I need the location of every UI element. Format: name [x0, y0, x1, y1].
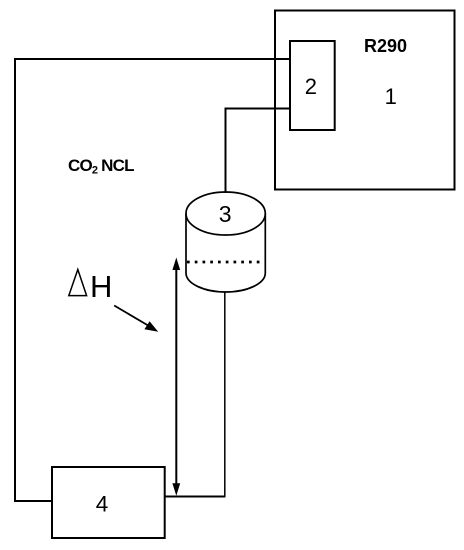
wire lower: component 2 to tank downcomer — [226, 108, 291, 110]
tank 3 cylinder body — [186, 192, 265, 292]
svg-text:CO2 NCL: CO2 NCL — [68, 156, 134, 177]
dimension line H (vertical double-headed arrow) — [172, 258, 180, 496]
svg-text:1: 1 — [385, 84, 397, 109]
svg-text:R290: R290 — [364, 36, 407, 56]
pipe: down into tank 3 top — [225, 108, 227, 194]
liquid level dotted line in tank 3 — [187, 261, 263, 264]
component 2 box (heat exchanger) — [290, 41, 335, 130]
wire left riser — [14, 58, 16, 501]
pipe: tank 3 bottom to lower junction — [224, 293, 226, 497]
wire upper: component 2 to left riser — [14, 58, 290, 60]
svg-text:2: 2 — [305, 74, 317, 99]
component 1 box (unit containing R290) — [275, 11, 455, 190]
pipe: junction to component 4 right side — [165, 496, 226, 498]
component 4 box — [52, 467, 165, 538]
wire into component 4 left side — [14, 500, 52, 502]
svg-text:H: H — [90, 269, 112, 304]
delta triangle of delta-H label — [69, 270, 87, 296]
svg-text:3: 3 — [219, 201, 232, 227]
svg-text:4: 4 — [96, 491, 109, 516]
annotation arrow from delta-H to dimension line — [114, 306, 158, 332]
